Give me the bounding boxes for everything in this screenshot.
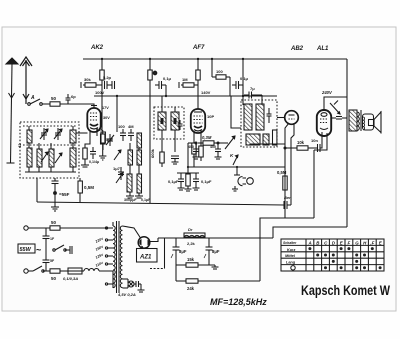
- table gramophone symbol: [291, 266, 295, 270]
- tube AF7: [191, 109, 205, 133]
- wire antenna to grid: [42, 103, 50, 105]
- svg-text:10k: 10k: [297, 140, 305, 145]
- power transformer core: [117, 221, 120, 293]
- svg-text:100V: 100V: [95, 90, 105, 95]
- resistor 30k + terminal: [81, 77, 102, 88]
- resistor 0,5M (AB2 load): [277, 170, 287, 190]
- capacitor Ber (tone): [284, 195, 291, 209]
- switch (mains bottom): [28, 266, 50, 272]
- coil L5: [70, 130, 76, 143]
- transformer secondary winding: [120, 226, 122, 288]
- svg-text:4M: 4M: [128, 124, 134, 129]
- AVC bus y167: [188, 166, 285, 168]
- IF2 coil a: [244, 104, 252, 130]
- osc wires: [129, 143, 131, 150]
- svg-text:=55F: =55F: [59, 192, 70, 197]
- AB2 leg wires: [285, 123, 289, 218]
- coil L1: [27, 130, 32, 143]
- capacitor 6p (antenna trim): [66, 94, 77, 104]
- band switch arrow S2: [55, 153, 62, 163]
- AF coupling line y148: [284, 147, 297, 149]
- svg-text:8μF: 8μF: [212, 249, 220, 254]
- svg-text:50k: 50k: [96, 127, 103, 132]
- bias tap wire: [164, 238, 166, 269]
- capacitor 5,2p (AK2): [103, 75, 115, 89]
- detector bus y143: [188, 142, 190, 144]
- AK2 pin wires: [85, 130, 90, 148]
- svg-text:300μμF: 300μμF: [124, 198, 137, 202]
- mains terminal top: [24, 226, 28, 230]
- svg-text:8μF: 8μF: [179, 249, 187, 254]
- resistor 50 (mains top): [50, 220, 60, 230]
- svg-text:100: 100: [118, 124, 125, 129]
- capacitor (AK2 cathode bypass): [89, 147, 99, 164]
- antenna 2: [20, 57, 32, 104]
- transformer taps: [105, 227, 113, 285]
- resistor (AK2 cathode): [83, 148, 87, 165]
- svg-text:AL1: AL1: [316, 46, 329, 52]
- svg-text:400: 400: [210, 145, 216, 149]
- resistor 50k (osc): [96, 127, 105, 150]
- svg-text:0,1μ: 0,1μ: [240, 76, 249, 81]
- coil L4: [49, 149, 54, 167]
- wire screen line to IF2: [231, 96, 241, 128]
- svg-text:55W: 55W: [20, 247, 32, 253]
- resistor 10k (AL1 grid): [297, 140, 318, 150]
- main oscillator anode line: [149, 59, 151, 203]
- AGC RC network: [168, 167, 212, 189]
- svg-text:AF7: AF7: [192, 45, 205, 51]
- resistor (IF2): [273, 130, 277, 145]
- wire to tube grid cap: [60, 104, 94, 106]
- svg-text:5,2p: 5,2p: [103, 75, 112, 80]
- coil L3: [37, 149, 42, 167]
- svg-text:17V: 17V: [102, 106, 109, 110]
- svg-text:AB2: AB2: [290, 46, 304, 52]
- capacitor 0,1u (AF7 stage): [232, 76, 249, 96]
- primary top lead: [112, 223, 114, 226]
- capacitor 400 (det L): [188, 142, 200, 159]
- AL1 anode cap: [331, 117, 347, 120]
- wire IF1 to detector: [190, 142, 196, 144]
- junction dot (screen line): [116, 95, 118, 97]
- heater winding leads: [117, 279, 145, 297]
- svg-text:50: 50: [51, 220, 57, 225]
- AL1 tone trimmer: [330, 101, 340, 115]
- switch K: [230, 153, 238, 165]
- svg-text:MF=128,5kHz: MF=128,5kHz: [210, 297, 267, 307]
- variable capacitor C2 (tuning): [54, 128, 62, 140]
- mains terminal bottom: [24, 269, 28, 273]
- osc coil B: [137, 133, 142, 148]
- wire transformer to AZ1: [123, 226, 141, 238]
- svg-text:Schalter: Schalter: [283, 241, 297, 245]
- variable capacitor C1 (tuning): [40, 128, 48, 140]
- svg-text:0,5M: 0,5M: [277, 170, 287, 175]
- speaker: [363, 111, 382, 134]
- svg-text:10P: 10P: [207, 114, 214, 119]
- capacitor 0,1u (AK2 stage): [155, 76, 172, 96]
- IF2 dotted box: [241, 100, 277, 147]
- svg-text:‚F: ‚F: [369, 240, 374, 245]
- headphone jack: [232, 167, 253, 191]
- resistor (osc feed): [148, 70, 152, 80]
- resistor 0,3M: [198, 135, 228, 145]
- svg-text:24k: 24k: [187, 286, 195, 291]
- wire diode load to AB2 grid: [249, 144, 251, 145]
- trimmer (osc): [106, 134, 114, 146]
- front-end band filter dotted box: [20, 122, 79, 178]
- IF1 coil b: [171, 112, 179, 130]
- svg-text:0,1μ: 0,1μ: [163, 76, 172, 81]
- resistor 2k (AK2 anode): [100, 70, 104, 80]
- table dots: [308, 247, 381, 269]
- svg-text:1M: 1M: [182, 77, 188, 82]
- svg-text:0,3M: 0,3M: [202, 135, 212, 140]
- svg-text:G: G: [355, 240, 359, 245]
- svg-text:400: 400: [188, 145, 194, 149]
- AF7 pin wires: [193, 131, 195, 143]
- wire x37 stub: [36, 178, 38, 202]
- top supply bus: [83, 58, 347, 60]
- capacitor 4M (osc): [128, 124, 134, 141]
- svg-text:A: A: [30, 95, 35, 101]
- svg-text:140V: 140V: [201, 90, 211, 95]
- IF2 coil b: [256, 104, 264, 130]
- capacitor + ground (IF1): [171, 156, 179, 164]
- table header text: [283, 240, 383, 264]
- wires inside filter box: [28, 126, 30, 130]
- svg-text:240V: 240V: [321, 90, 333, 95]
- svg-text:A: A: [308, 240, 312, 245]
- IF1 wires: [161, 96, 163, 112]
- cathode rail x316: [313, 150, 315, 218]
- band switch arrow S1: [41, 152, 48, 162]
- svg-text:0,1/0,3A: 0,1/0,3A: [63, 276, 78, 281]
- IF2 trimmer: [267, 108, 272, 123]
- anode feed wire AF7: [197, 59, 199, 109]
- svg-text:Dr: Dr: [188, 227, 193, 232]
- padder cap 1u7: [113, 166, 124, 180]
- B+ rail right: [346, 59, 348, 227]
- svg-text:600k: 600k: [150, 148, 155, 158]
- osc coil E: [137, 174, 142, 193]
- svg-text:30k: 30k: [84, 77, 91, 82]
- IF1 dotted box: [154, 107, 184, 139]
- switch arrow (osc 2): [116, 173, 123, 183]
- resistor 0,5M (AGC return): [78, 178, 94, 202]
- svg-text:10n: 10n: [311, 138, 318, 143]
- switch A: [28, 95, 43, 105]
- dashed link to chassis: [150, 268, 165, 270]
- rectifier AZ1: [137, 237, 158, 262]
- svg-text:AK2: AK2: [90, 45, 104, 51]
- resistor (AF7 screen): [199, 146, 203, 161]
- capacitor 10n (AL1 grid): [311, 138, 320, 152]
- resistor 600k: [150, 148, 164, 167]
- anode feed wire AK2: [101, 59, 103, 130]
- AL1 grid wire: [320, 132, 322, 148]
- wire filter box to tube: [76, 132, 88, 134]
- resistor 2k (AF7 anode): [196, 70, 200, 80]
- capacitor 55F below filter: [52, 178, 70, 207]
- resistor 50 (antenna): [50, 96, 60, 106]
- svg-text:0,1μF: 0,1μF: [141, 198, 151, 202]
- IF1 trimmer: [178, 120, 183, 130]
- junction dot: [153, 71, 157, 75]
- switch arrow (osc): [114, 150, 121, 160]
- staircase B+ feed: [260, 218, 314, 281]
- AL1 cathode wire: [314, 133, 327, 150]
- ground (AK2 cathode): [81, 165, 89, 167]
- tube AK2: [87, 108, 100, 132]
- resistor 15k: [176, 257, 215, 267]
- svg-text:0,1/4μ: 0,1/4μ: [89, 160, 99, 164]
- svg-text:Kapsch Komet W: Kapsch Komet W: [301, 282, 391, 298]
- osc coil D: [127, 174, 132, 192]
- output transformer coil: [349, 110, 361, 131]
- svg-text:50: 50: [51, 276, 57, 281]
- smoothing choke Dr: [184, 227, 205, 246]
- svg-text:0,5M: 0,5M: [84, 185, 94, 190]
- svg-text:2,2k: 2,2k: [187, 241, 196, 246]
- resistor 50k (AK2 screen): [99, 130, 113, 160]
- AZ1 output wire: [150, 238, 158, 242]
- svg-text:0,1μF: 0,1μF: [168, 179, 179, 184]
- svg-text:AZ1: AZ1: [139, 255, 152, 261]
- osc coil A: [128, 150, 133, 165]
- 55W label box: [18, 244, 41, 255]
- fuse 0,1/0,3A: [60, 268, 82, 281]
- capacitor 7u: [244, 86, 262, 105]
- line filter caps: [43, 228, 55, 271]
- svg-text:Ber: Ber: [284, 195, 291, 200]
- resistor 24k (bleeder): [176, 265, 260, 291]
- svg-text:1μ7: 1μ7: [113, 166, 121, 171]
- IF2 coil c (diode winding): [246, 134, 260, 145]
- coil L2: [27, 148, 32, 167]
- svg-text:50: 50: [51, 96, 57, 101]
- ground (55F): [51, 207, 59, 211]
- wire x117 down to oscillator: [116, 96, 118, 132]
- resistor (AF7 cathode): [192, 143, 196, 167]
- svg-text:0,1μF: 0,1μF: [201, 179, 212, 184]
- svg-text:Kurz: Kurz: [287, 248, 296, 252]
- feed wire: [242, 59, 244, 105]
- tap labels: [94, 236, 105, 267]
- IF2 comp d: [263, 134, 269, 145]
- svg-text:30V: 30V: [103, 116, 110, 120]
- AL1 anode wire: [324, 97, 347, 110]
- svg-text:42: 42: [17, 143, 22, 148]
- capacitor 100 (osc): [118, 124, 126, 141]
- svg-text:100: 100: [216, 69, 223, 74]
- svg-text:15k: 15k: [187, 257, 195, 262]
- coil L6: [70, 148, 76, 167]
- wire IF2 to AB2: [277, 117, 285, 119]
- line choke bumps: [84, 269, 99, 272]
- grid return line y203: [37, 202, 284, 205]
- resistor 100 (screen AF7): [212, 59, 230, 96]
- screen feed line y96: [94, 95, 277, 97]
- svg-text:Mittel: Mittel: [285, 254, 296, 258]
- ground (filter): [212, 265, 219, 269]
- volume pot arrow: [225, 136, 235, 149]
- svg-text:4,5V 0,2A: 4,5V 0,2A: [117, 292, 136, 297]
- staircase screen feed: [273, 227, 347, 238]
- ground (osc L): [126, 196, 134, 198]
- B+ line from rectifier: [158, 237, 273, 239]
- mains switch: [53, 245, 72, 254]
- filter cap 8uF (2): [204, 238, 220, 265]
- capacitor 400 (det R): [210, 142, 222, 159]
- ground (osc R): [135, 196, 143, 198]
- ground (AGC): [178, 188, 200, 191]
- svg-text:F: F: [348, 240, 351, 245]
- osc coil C: [137, 150, 142, 165]
- filter cap 8uF (1): [171, 238, 187, 265]
- transformer primary winding: [113, 226, 115, 288]
- resistor 1M + terminal: [179, 77, 198, 88]
- mains wires: [28, 227, 50, 229]
- IF1 coil a: [158, 112, 166, 130]
- svg-text:~: ~: [36, 245, 41, 255]
- antenna 1: [6, 58, 18, 163]
- svg-text:Lang: Lang: [286, 261, 296, 265]
- svg-text:6p: 6p: [71, 94, 76, 99]
- resistor 50 (mains bottom): [50, 269, 60, 281]
- svg-text:7μ: 7μ: [250, 86, 255, 91]
